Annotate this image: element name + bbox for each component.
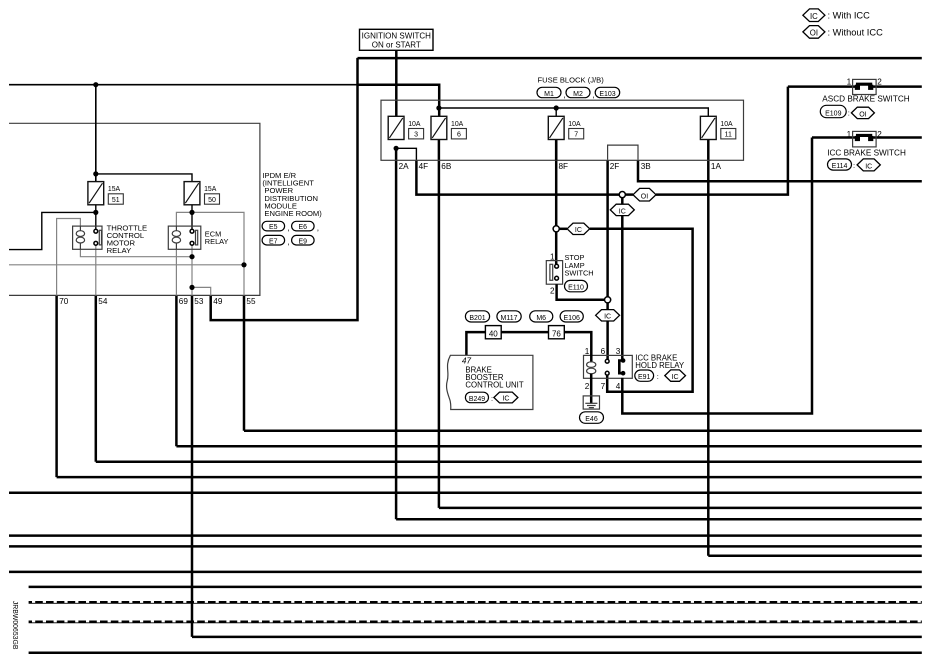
connector M2 bbox=[566, 87, 590, 98]
svg-text:3B: 3B bbox=[641, 162, 652, 171]
relay ICC brake hold relay box bbox=[584, 355, 633, 378]
splice splice 8F bbox=[553, 226, 559, 232]
svg-text:15A: 15A bbox=[204, 186, 217, 193]
svg-text:50: 50 bbox=[208, 197, 216, 204]
wire brake booster pin 47 to boxes 40/76 bbox=[466, 332, 485, 355]
coil ICC brake hold relay bbox=[587, 362, 596, 374]
label ICC brake hold relay bbox=[635, 353, 685, 370]
svg-text:3: 3 bbox=[414, 132, 418, 139]
junction pin 55 node bbox=[241, 262, 246, 267]
connector E91 bbox=[635, 370, 654, 381]
connector B201 bbox=[465, 311, 489, 322]
ground E46 symbol bbox=[583, 396, 599, 409]
svg-text:FUSE BLOCK (J/B): FUSE BLOCK (J/B) bbox=[538, 76, 605, 85]
svg-text:: Without ICC: : Without ICC bbox=[828, 27, 884, 37]
svg-text:ASCD BRAKE SWITCH: ASCD BRAKE SWITCH bbox=[822, 95, 909, 104]
svg-text:49: 49 bbox=[213, 297, 223, 306]
wire bus from left edge 5 bbox=[29, 586, 922, 589]
wire bus from left edge 3 bbox=[9, 545, 922, 548]
wire 2A output bbox=[395, 148, 398, 519]
wire between box 40 and 76 bbox=[501, 331, 548, 334]
svg-text:53: 53 bbox=[194, 297, 204, 306]
junction below fuse 50 bbox=[189, 210, 194, 215]
option hexagon IC at E91 bbox=[665, 370, 686, 381]
svg-text:RELAY: RELAY bbox=[107, 246, 132, 255]
connector E114 bbox=[828, 159, 852, 170]
fuse block (J/B) outline bbox=[381, 100, 744, 160]
wire ignition switch lead / 2A feed bbox=[395, 50, 398, 116]
svg-text:E106: E106 bbox=[564, 315, 580, 322]
svg-text:OI: OI bbox=[810, 29, 818, 38]
svg-text:OI: OI bbox=[859, 111, 866, 118]
IPDM E/R box bbox=[9, 123, 260, 295]
connector M117 bbox=[497, 311, 521, 322]
wire link to fuse 50 bbox=[96, 174, 192, 182]
option hexagon OI main bbox=[633, 188, 656, 201]
junction below fuse 51 bbox=[93, 210, 98, 215]
wire IPDM pin 70 drop bbox=[55, 295, 58, 477]
junction pin 49 node bbox=[189, 285, 194, 290]
splice splice 4F/OI/IC bbox=[619, 192, 625, 198]
svg-text:2: 2 bbox=[585, 382, 590, 391]
wire OI hexagon to ASCD riser bbox=[656, 87, 788, 195]
svg-text:7: 7 bbox=[574, 132, 578, 139]
wire fuse 7 bottom lead bbox=[555, 139, 558, 160]
connector M6 bbox=[530, 311, 553, 322]
label ECM relay bbox=[205, 230, 229, 247]
svg-text:1: 1 bbox=[585, 347, 590, 356]
wire battery branch to fuse 6 bbox=[358, 85, 440, 117]
svg-text:6B: 6B bbox=[441, 162, 452, 171]
svg-text::: : bbox=[491, 394, 493, 403]
svg-text:8F: 8F bbox=[559, 162, 569, 171]
svg-text:,: , bbox=[592, 90, 594, 100]
wire ICC brake switch line right bbox=[873, 136, 922, 139]
connector E6 bbox=[292, 221, 315, 231]
wire bus from IPDM pin 54 bbox=[96, 461, 922, 464]
svg-text:1: 1 bbox=[847, 77, 852, 86]
wire 2F output bbox=[606, 160, 609, 296]
svg-text:76: 76 bbox=[552, 329, 561, 338]
junction fuse 7 top bbox=[554, 105, 559, 110]
connector E9 bbox=[292, 235, 315, 245]
wire branch to pin 55 bbox=[192, 212, 244, 295]
contact throttle relay bbox=[94, 229, 102, 245]
svg-text:E110: E110 bbox=[568, 285, 584, 292]
wire throttle contact to pin 54 bbox=[95, 243, 97, 295]
wire bus from left edge 1 bbox=[9, 491, 922, 494]
connector B249 bbox=[465, 392, 488, 403]
svg-text:54: 54 bbox=[98, 297, 108, 306]
svg-text:6: 6 bbox=[601, 347, 606, 356]
junction fuse 51 top bbox=[93, 171, 98, 176]
svg-text:,: , bbox=[563, 90, 565, 100]
svg-text:SWITCH: SWITCH bbox=[565, 268, 594, 277]
wire 8F splice to IC hexagon bbox=[559, 228, 567, 231]
wire IPDM internal bus to 55 bbox=[9, 264, 244, 266]
wire ICC brake switch line left bbox=[812, 136, 856, 139]
svg-text:,: , bbox=[287, 237, 289, 247]
svg-text:ICC BRAKE SWITCH: ICC BRAKE SWITCH bbox=[827, 148, 906, 157]
svg-text:1A: 1A bbox=[711, 162, 722, 171]
fuse 50 (15A) bbox=[184, 182, 219, 205]
contact ECM relay bbox=[190, 229, 198, 245]
wire bus from fuse block 2A bbox=[396, 518, 922, 521]
wire throttle coil feed bbox=[57, 219, 81, 296]
stop lamp switch box bbox=[546, 261, 562, 285]
svg-text:JRBW00653GB: JRBW00653GB bbox=[11, 601, 18, 650]
svg-text:7: 7 bbox=[601, 382, 606, 391]
wire bus from IPDM pin 70 bbox=[57, 476, 922, 479]
contact stop lamp switch bbox=[550, 264, 559, 280]
junction battery line tap bbox=[93, 82, 98, 87]
wire splice down to IC hexagon bbox=[621, 198, 624, 205]
svg-text:ENGINE ROOM): ENGINE ROOM) bbox=[264, 209, 322, 218]
wire IC hexagon to ICC relay pin 3 bbox=[621, 216, 624, 361]
wire fuse 51 feed bbox=[95, 85, 97, 182]
svg-text:HOLD RELAY: HOLD RELAY bbox=[635, 361, 685, 370]
wire IC hexagon to ICC relay pin 7 bbox=[590, 229, 693, 392]
svg-text:E5: E5 bbox=[269, 224, 278, 231]
coil throttle relay bbox=[76, 226, 84, 249]
svg-text:IC: IC bbox=[604, 314, 611, 321]
svg-text:E103: E103 bbox=[599, 91, 615, 98]
wire stop lamp pin 2 to 2F splice bbox=[557, 284, 605, 300]
wire bus from left edge 6 bbox=[29, 652, 922, 655]
svg-text:E9: E9 bbox=[299, 238, 308, 245]
wire fuse 50 bottom bbox=[191, 205, 193, 231]
svg-text:IGNITION SWITCH: IGNITION SWITCH bbox=[362, 32, 432, 41]
svg-text:2: 2 bbox=[877, 130, 882, 139]
wire fuse 51 bottom bbox=[95, 205, 97, 231]
svg-text:IC: IC bbox=[502, 396, 509, 403]
svg-text:2A: 2A bbox=[399, 162, 410, 171]
svg-text:M2: M2 bbox=[573, 91, 583, 98]
svg-text:2: 2 bbox=[550, 287, 555, 296]
wire splice to OI hexagon bbox=[622, 193, 633, 196]
wire ignition bus (IGN ON/START) bbox=[358, 57, 922, 60]
svg-text:M117: M117 bbox=[501, 315, 518, 322]
wire bus from fuse block 6B bbox=[439, 507, 922, 510]
svg-text:10A: 10A bbox=[408, 121, 421, 128]
svg-text:6: 6 bbox=[457, 132, 461, 139]
svg-text:E91: E91 bbox=[638, 374, 651, 381]
wire 1A output bbox=[707, 139, 710, 555]
svg-text::: : bbox=[848, 108, 850, 117]
wire branch to pin 49 bbox=[192, 287, 211, 295]
connector E110 bbox=[565, 280, 588, 291]
terminal box 76 bbox=[549, 326, 565, 339]
ICC brake switch box bbox=[853, 131, 877, 147]
svg-text:IC: IC bbox=[575, 227, 582, 234]
wire IPDM pin 53 drop bbox=[191, 295, 194, 637]
label throttle relay bbox=[107, 223, 148, 255]
connector E5 bbox=[262, 221, 285, 231]
svg-text:OI: OI bbox=[641, 194, 648, 201]
wire IPDM pin 69 drop bbox=[175, 295, 178, 446]
wire 2F-3B jumper inside fuse block bbox=[608, 145, 638, 160]
contact ASCD brake switch bbox=[855, 84, 874, 90]
relay throttle control motor relay box bbox=[73, 226, 102, 249]
svg-text:B249: B249 bbox=[469, 396, 485, 403]
svg-text:2: 2 bbox=[877, 77, 882, 86]
svg-text:2F: 2F bbox=[610, 162, 620, 171]
wire dashed bus 1 (dashed) bbox=[29, 601, 922, 604]
splice splice 2F stop lamp bbox=[605, 297, 611, 303]
svg-text:69: 69 bbox=[179, 297, 189, 306]
wire bus from IPDM pin 69 bbox=[176, 445, 921, 448]
contact ICC brake hold relay bbox=[605, 358, 625, 375]
svg-text:E6: E6 bbox=[299, 224, 308, 231]
terminal box 40 bbox=[485, 326, 501, 339]
fuse 7 (10A) bbox=[548, 116, 583, 139]
svg-text:10A: 10A bbox=[720, 121, 733, 128]
contact ICC brake switch bbox=[855, 135, 874, 141]
wire throttle coil ground side bbox=[80, 249, 192, 256]
svg-text:IC: IC bbox=[619, 208, 626, 215]
fuse 3 (10A) bbox=[388, 116, 423, 139]
brake booster control unit box bbox=[447, 355, 533, 409]
wire 4F output to splice bbox=[416, 160, 619, 194]
fuse 51 (15A) bbox=[88, 182, 123, 205]
option hexagon IC at 8F bbox=[567, 223, 590, 234]
wire ECM coil to pin 69 bbox=[175, 249, 177, 295]
legend hexagon OI bbox=[803, 26, 825, 39]
wire ASCD brake switch line left bbox=[788, 85, 856, 88]
wire bus from IPDM pin 55 bbox=[244, 429, 922, 432]
option hexagon OI at E109 bbox=[851, 107, 874, 118]
relay ECM relay box bbox=[168, 226, 201, 249]
wire bus from fuse block 1A bbox=[708, 555, 922, 558]
option hexagon IC at B249 bbox=[494, 392, 518, 403]
option hexagon IC at 2F bbox=[596, 310, 620, 321]
wire IPDM pin 49 to ignition feed bbox=[211, 58, 358, 320]
wire 8F to stop lamp switch pin 1 bbox=[555, 232, 558, 266]
fuse 11 (10A) bbox=[700, 116, 735, 139]
connector E7 bbox=[262, 235, 285, 245]
connector E103 bbox=[595, 87, 620, 98]
label brake booster control unit bbox=[465, 365, 523, 389]
svg-text:B201: B201 bbox=[469, 315, 485, 322]
svg-text:E46: E46 bbox=[585, 416, 598, 423]
connector E46 bbox=[580, 412, 604, 424]
svg-text:55: 55 bbox=[246, 297, 256, 306]
svg-text:3: 3 bbox=[616, 347, 621, 356]
svg-text::: : bbox=[853, 161, 855, 170]
ASCD brake switch box bbox=[853, 79, 877, 94]
svg-text:IC: IC bbox=[865, 164, 872, 171]
svg-text:40: 40 bbox=[489, 329, 498, 338]
option hexagon IC at E114 bbox=[857, 159, 880, 171]
wire IPDM exit left upper bbox=[9, 212, 96, 249]
svg-text:1: 1 bbox=[550, 252, 555, 261]
svg-text::: : bbox=[657, 372, 659, 381]
svg-text:47: 47 bbox=[462, 357, 472, 366]
connector E106 bbox=[560, 311, 583, 322]
fuse 6 (10A) bbox=[431, 116, 466, 139]
svg-text:RELAY: RELAY bbox=[205, 237, 229, 246]
svg-text:: With ICC: : With ICC bbox=[828, 11, 871, 21]
svg-text:51: 51 bbox=[112, 197, 120, 204]
svg-text:15A: 15A bbox=[108, 186, 121, 193]
wire 6B output bbox=[438, 139, 441, 508]
wire 3B output to right bbox=[638, 160, 922, 181]
wire fuse 7 top lead bbox=[555, 108, 557, 116]
wire ICC relay coil to ground bbox=[590, 374, 593, 404]
connector M1 bbox=[537, 87, 561, 98]
svg-text:M1: M1 bbox=[544, 91, 554, 98]
legend hexagon IC bbox=[803, 9, 825, 22]
svg-text:E114: E114 bbox=[832, 163, 848, 170]
junction ECM contact node bbox=[189, 254, 194, 259]
svg-text:M6: M6 bbox=[536, 315, 546, 322]
svg-text:,: , bbox=[287, 223, 289, 233]
wire bus from left edge 2 bbox=[9, 534, 922, 537]
svg-text:ON or START: ON or START bbox=[372, 41, 421, 50]
wire 2F splice to IC hexagon bbox=[606, 303, 609, 310]
svg-text:11: 11 bbox=[725, 132, 732, 139]
junction fuse 3 bottom bbox=[394, 146, 399, 151]
label IPDM E/R title bbox=[262, 171, 322, 218]
wire dashed bus 2 (dashed) bbox=[29, 620, 922, 623]
svg-text:70: 70 bbox=[59, 297, 69, 306]
label stop lamp switch bbox=[565, 253, 594, 277]
svg-text:E109: E109 bbox=[825, 111, 841, 118]
svg-text:IC: IC bbox=[810, 12, 818, 21]
svg-text:10A: 10A bbox=[568, 121, 581, 128]
wire ICC relay coil feed from 76 bbox=[564, 332, 591, 362]
wire ECM coil feed bbox=[176, 212, 192, 226]
svg-text:10A: 10A bbox=[451, 121, 464, 128]
connector E109 bbox=[820, 105, 846, 117]
wire fuse block internal top link bbox=[439, 108, 708, 116]
wire IPDM pin 55 drop bbox=[243, 295, 246, 430]
wire IC hexagon to ICC relay pin 6 bbox=[606, 321, 609, 361]
junction fuse 6 top bbox=[436, 105, 441, 110]
svg-text:4: 4 bbox=[616, 382, 621, 391]
svg-text:E7: E7 bbox=[269, 238, 278, 245]
ignition switch box bbox=[360, 29, 434, 50]
svg-text:1: 1 bbox=[847, 130, 852, 139]
wire 4F jog inside fuse block bbox=[396, 148, 416, 160]
svg-text:4F: 4F bbox=[419, 162, 429, 171]
wire ECM contact down bbox=[191, 243, 193, 295]
wire bus from IPDM pin 53 bbox=[192, 636, 922, 639]
wire ASCD brake switch line right bbox=[873, 85, 922, 88]
wire IPDM pin 54 drop bbox=[95, 295, 98, 461]
coil ECM relay bbox=[172, 226, 180, 249]
wire ICC relay pin 4 to ICC brake switch bbox=[622, 138, 812, 414]
wire 8F output bbox=[555, 139, 558, 225]
svg-text:,: , bbox=[317, 223, 319, 233]
svg-text:CONTROL UNIT: CONTROL UNIT bbox=[465, 381, 523, 390]
option hexagon IC below splice bbox=[610, 204, 634, 215]
wire battery line left bbox=[9, 84, 358, 86]
svg-text:IC: IC bbox=[672, 374, 679, 381]
wire bus from left edge 4 bbox=[9, 571, 922, 574]
